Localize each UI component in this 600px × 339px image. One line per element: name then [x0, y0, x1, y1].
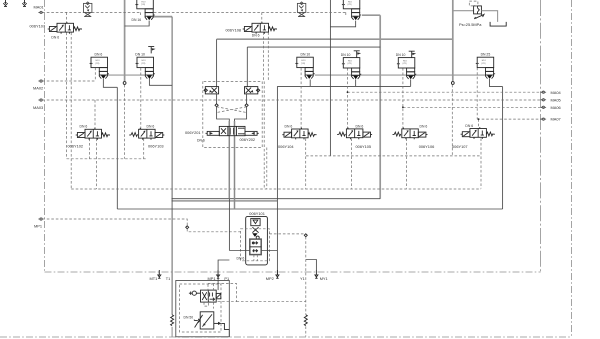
- solenoid box with triangle: [251, 218, 260, 225]
- wire: grey vertical x=380.2: [379, 15, 381, 199]
- dashed function box around 006Y101: [241, 229, 270, 261]
- wire: grey vertical x=452.8: [452, 0, 454, 81]
- wire: P1 port jog: [218, 260, 229, 277]
- wire: MA03-MA05 pilot dashed line y=100: [42, 99, 542, 101]
- wire: 006Y105 drain dash x=351.5: [351, 138, 353, 188]
- svg-text:006Y102: 006Y102: [68, 144, 84, 149]
- wire: R4 output elbow into y=86.4: [410, 79, 412, 86]
- cartridge valve T1 DN16: [135, 0, 154, 20]
- svg-text:006Y105: 006Y105: [356, 144, 372, 149]
- svg-text:MP2: MP2: [266, 276, 274, 281]
- pressure reducing valve horizontal: [189, 284, 237, 309]
- svg-text:DN 10: DN 10: [396, 53, 406, 57]
- tank symbol left 1: [3, 0, 7, 6]
- svg-text:DN 6: DN 6: [465, 124, 473, 128]
- wire: x=172.1 lower continuation: [171, 327, 173, 337]
- wire: R2 pilot dash x=301.1 into 006Y104: [300, 68, 302, 129]
- dashed stubs below valve: [254, 255, 257, 261]
- cartridge valve R4: [397, 58, 416, 80]
- svg-text:Ps=25.5MPa: Ps=25.5MPa: [459, 22, 482, 27]
- svg-text:DN 10: DN 10: [341, 53, 351, 57]
- node: diamond C on x=305.8: [304, 234, 307, 237]
- node: junction dot MA04: [347, 91, 349, 93]
- wire: left dashed collector y=158.8: [67, 158, 147, 160]
- svg-text:MT1: MT1: [150, 276, 158, 281]
- svg-text:DN 16: DN 16: [132, 18, 142, 22]
- valve 006Y107: [48, 22, 82, 34]
- vent symbol above R3: [354, 51, 361, 58]
- cartridge valve R3: [342, 58, 361, 80]
- vent symbol above R1b: [148, 47, 155, 54]
- wire: outer enclosure chain vertical x=571.5: [571, 0, 573, 337]
- svg-text:DN 6: DN 6: [420, 124, 428, 128]
- wire: MA06 stub: [541, 106, 543, 108]
- svg-text:DN 6: DN 6: [285, 124, 293, 128]
- wire: inner enclosure chain vertical right x=540.6: [540, 0, 542, 272]
- node: diamond junction MP1: [186, 226, 189, 229]
- relief valve Ps: [469, 1, 484, 19]
- port MA05: [542, 99, 546, 101]
- vent symbol above R4: [409, 51, 416, 58]
- svg-text:DN 25: DN 25: [481, 52, 491, 56]
- valve 006Y108: [243, 22, 277, 34]
- wire: pilot drain collector dashed y=188.5: [71, 188, 481, 190]
- svg-text:MA05: MA05: [551, 97, 561, 102]
- wire: right valve drain dash x=481: [480, 138, 482, 188]
- cartridge valve R5 DN25: [476, 57, 495, 79]
- port MA04: [542, 91, 546, 93]
- port MA07: [542, 118, 546, 120]
- port MP2: [276, 270, 279, 279]
- wire: MA02 pilot dashed line y=81: [42, 80, 95, 82]
- wire: MA06 pilot dashed line y=107.3: [403, 106, 542, 108]
- svg-text:DN 6: DN 6: [237, 256, 245, 260]
- cartridge valve R2: [295, 57, 314, 79]
- svg-text:MA06: MA06: [551, 105, 561, 110]
- proportional valve 006Y201/006Y202: [206, 126, 259, 135]
- wire: 006Y102 drain dash x=97.5: [95, 100, 97, 189]
- wire: inner enclosure chain horizontal y=272: [45, 271, 541, 273]
- svg-text:DN 6: DN 6: [80, 125, 88, 129]
- wire: y=250.5 left segment: [229, 250, 249, 252]
- svg-text:006Y101: 006Y101: [249, 211, 265, 216]
- port MA01: [38, 11, 42, 13]
- throttle check box right: [245, 87, 260, 94]
- wire: outer enclosure chain horizontal bottom y=337: [0, 336, 572, 338]
- wire: R2 output stem: [309, 79, 311, 86]
- wire: T1 stem: [158, 271, 160, 276]
- svg-text:006Y201: 006Y201: [185, 130, 201, 135]
- wire: R3 output stem: [355, 79, 357, 86]
- wire: MA04 stub: [541, 91, 543, 93]
- port MY1: [315, 270, 318, 279]
- node: circle junction on x=452.8: [451, 82, 454, 85]
- wire: MY1 elbow: [306, 260, 317, 276]
- cartridge valve R1b: [136, 57, 155, 79]
- wire: grey pilot-supply bus y=75.1 right part: [315, 74, 485, 76]
- wire: left drop to diamond: [216, 94, 218, 104]
- svg-text:MA01: MA01: [34, 5, 44, 10]
- wire: grey vertical x=124.6 top bus: [124, 0, 126, 81]
- wire: MA07 stub: [541, 118, 543, 120]
- check valve CV1 on MA01 line: [84, 2, 92, 17]
- wire: dashed vertical x=66.6 from valve 006Y107: [66, 12, 68, 158]
- node: diamond A: [215, 104, 218, 107]
- svg-text:MA03: MA03: [33, 105, 43, 110]
- svg-text:006Y107: 006Y107: [30, 24, 46, 29]
- svg-text:MY1: MY1: [320, 276, 328, 281]
- wire: grey supply bus y=39.2: [217, 38, 453, 40]
- valve cross X: [252, 227, 258, 232]
- valve 006Y103 (mirrored): [129, 128, 164, 140]
- wire: dashed vertical x=71.2 from valve 006Y107: [70, 33, 72, 190]
- wire: vertical x=172.1: [171, 17, 173, 315]
- wire: grey double bus P x=229.3: [228, 121, 230, 199]
- wire: dashed y=302.5: [237, 301, 306, 303]
- wire: grey double bus T x=234.5: [234, 121, 236, 209]
- throttle check box left: [204, 87, 219, 94]
- wire: black vertical x=330.4: [329, 0, 331, 156]
- wire: MA05 stub: [541, 99, 543, 101]
- wire: 006Y108 pilot dashes x=263.6 x=268.3: [262, 12, 269, 81]
- wire: inner enclosure chain vertical left x=44.5: [44, 0, 46, 272]
- wire: black vertical x=216.6 supply drop: [216, 39, 218, 86]
- wire: right drop to diamond: [246, 94, 248, 104]
- wire: relief drain elbow to bottom: [228, 329, 230, 337]
- wire: black vertical x=277.4: [276, 86, 278, 275]
- pilot unit dashed box: [180, 284, 222, 332]
- port MA02: [38, 80, 42, 82]
- wire: dashed vertical x=452.3 below circle: [451, 85, 453, 156]
- wire: R1 pilot dash x=95.3: [94, 68, 96, 81]
- wire: R1b pilot dash x=140.8: [140, 68, 142, 129]
- svg-text:MA02: MA02: [33, 86, 43, 91]
- cartridge valve R1 DN6: [90, 57, 109, 79]
- wire: MA01 pilot dashed line y=12.4: [42, 12, 346, 15]
- svg-text:006Y106: 006Y106: [419, 144, 435, 149]
- svg-text:006Y107: 006Y107: [452, 144, 468, 149]
- wire: T-return line y=198.7: [172, 198, 381, 200]
- pilot relief valve: [194, 312, 229, 330]
- svg-text:P1: P1: [224, 276, 229, 281]
- wire: right valve pilot dash x=478.5: [478, 119, 480, 128]
- svg-text:DN 6: DN 6: [356, 124, 364, 128]
- svg-text:006Y108: 006Y108: [226, 28, 242, 33]
- wire: 006Y106 drain dash x=406.5: [406, 138, 408, 188]
- svg-text:MP1: MP1: [34, 224, 42, 229]
- pilot unit solid box: [176, 281, 230, 337]
- wire: right diamond down to valve T: [235, 107, 247, 127]
- wire: black elbow from T2 tip to x=330.4: [330, 21, 355, 27]
- node: circle junction on x=124.6: [123, 82, 126, 85]
- svg-text:MA07: MA07: [551, 117, 561, 122]
- svg-text:DN 6: DN 6: [147, 125, 155, 129]
- filled triangle down: [252, 233, 257, 237]
- wire: dash-dot x=305.8 riser: [305, 237, 307, 315]
- port MP1: [38, 218, 42, 220]
- wire: dashed line y=155.9: [306, 155, 481, 157]
- svg-text:DN 6: DN 6: [197, 139, 205, 143]
- node: diamond B: [245, 104, 248, 107]
- valve 006Y105 (mirrored): [337, 127, 372, 139]
- valve 006Y104: [282, 128, 316, 140]
- tank box at relief drain: [490, 22, 506, 26]
- wire: R5 pilot dash x=477.2: [476, 68, 478, 119]
- port P1: [217, 270, 220, 279]
- wire: dark vertical x=229.4 below bus: [228, 199, 230, 251]
- wire: left diamond down to valve P: [217, 107, 230, 127]
- wire: black vertical x=117.3: [116, 87, 118, 209]
- wire: y=250.5 right segment to MP2: [261, 250, 277, 252]
- valve 006Y107b right: [461, 127, 495, 139]
- wire: 006Y104 drain dash x=305.7: [305, 138, 307, 188]
- wire: 006Y102 left drain dash x=89.5: [89, 139, 91, 159]
- svg-text:DN 50: DN 50: [184, 316, 194, 320]
- wire: R1 output elbow to x=117.3: [103, 79, 117, 87]
- tank symbol left 2: [22, 0, 26, 6]
- wire: black line y=47.1: [247, 46, 380, 48]
- wire: black vertical x=247.3 drop: [246, 47, 248, 87]
- svg-text:DN 6: DN 6: [95, 52, 103, 56]
- valve 006Y102: [76, 128, 110, 140]
- wire: R4 pilot dash x=402.9 into 006Y106: [402, 68, 404, 129]
- port MA06: [542, 106, 546, 108]
- svg-text:DN 6: DN 6: [252, 34, 260, 38]
- wire: short line y=200.9: [172, 200, 278, 202]
- svg-text:DN 6: DN 6: [51, 36, 59, 40]
- small circle orifice: [256, 236, 259, 239]
- valve 006Y106 (mirrored): [393, 127, 428, 139]
- wire: grey line T1 cartridge to x=172: [153, 16, 172, 18]
- svg-text:MA04: MA04: [551, 90, 562, 95]
- wire: grey line T2 cartridge to x=380: [362, 14, 380, 16]
- svg-text:006Y103: 006Y103: [148, 144, 164, 149]
- svg-text:Y1: Y1: [300, 276, 305, 281]
- spring drain on x=305.8: [304, 315, 307, 326]
- node: junction dot MA07: [478, 118, 480, 120]
- wire: black vertical x=502.6: [502, 87, 504, 209]
- port T1: [158, 270, 161, 279]
- dashed enclosure around center valve group: [203, 81, 262, 147]
- wire: dashed y=233.9 from 006Y101 to diamond: [269, 233, 304, 235]
- wire: P line y=209: [117, 208, 502, 210]
- wire: 006Y103 drain dash x=143.7: [143, 139, 145, 159]
- wire: grey line from relief valve y=10.7: [453, 10, 474, 12]
- wire: MA07 pilot dashed line y=119.1: [477, 118, 542, 120]
- wire: R5 output elbow to x=502.6: [490, 79, 503, 87]
- assembly outer box 006Y101: [246, 216, 268, 265]
- port MA03: [38, 99, 42, 101]
- svg-text:DN 10: DN 10: [301, 53, 311, 57]
- spring drain on x=172.1: [171, 315, 174, 326]
- wire: crossover dashed X: [217, 107, 247, 113]
- svg-text:MP1: MP1: [208, 276, 216, 281]
- wire: dashed y=231.8 from diamond to 006Y101: [187, 229, 240, 232]
- check valve CV2 on MA01 line: [297, 2, 305, 17]
- wire: dashed vertical x=124.6 below circle node: [124, 85, 126, 159]
- svg-text:T1: T1: [166, 276, 171, 281]
- svg-text:DN 10: DN 10: [135, 52, 145, 56]
- wire: R1b output elbow to x=172.2: [149, 78, 172, 85]
- wire: grey pilot-supply bus y=75: [108, 74, 146, 76]
- wire: relief to tank: [481, 11, 497, 22]
- wire: R3 pilot dash x=347.5 into 006Y105: [347, 68, 349, 129]
- cartridge valve T2: [342, 0, 361, 20]
- svg-text:006Y104: 006Y104: [278, 144, 294, 149]
- wire: black elbow from T1 tip to x=124.6: [125, 21, 150, 26]
- wire: MA04 pilot dashed line y=92.2: [348, 91, 543, 93]
- wire: P1 stem into reducing valve: [217, 277, 219, 290]
- wire: MP1 pilot dashed line y=219: [42, 219, 187, 226]
- svg-text:006Y202: 006Y202: [240, 137, 256, 142]
- node: junction dot MA06: [402, 106, 404, 108]
- reducing valve body: [250, 239, 261, 255]
- wire: A-line y=86.4: [277, 85, 410, 87]
